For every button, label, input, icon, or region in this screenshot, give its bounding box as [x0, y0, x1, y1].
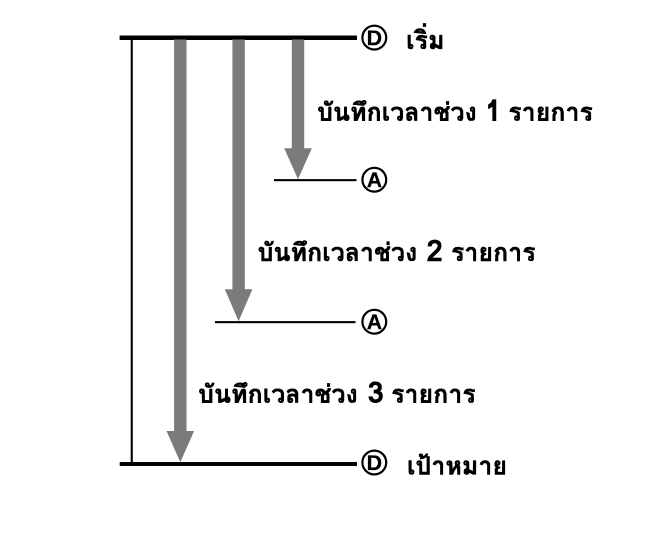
label: record time interval 2: [259, 240, 536, 262]
interval line A1: [274, 179, 357, 181]
circled A 1: [362, 168, 386, 192]
bottom horizontal line (goal): [120, 462, 357, 466]
label: record time interval 1: [318, 99, 592, 121]
top horizontal line (start): [120, 36, 357, 41]
circled A 2: [362, 310, 386, 334]
circled D bottom (goal): [362, 451, 386, 475]
circled D top (start): [362, 26, 386, 50]
gray arrow 1 (interval 1): [284, 40, 312, 180]
gray arrow 2 (interval 2): [225, 40, 253, 322]
label: start (rerm): [408, 23, 443, 49]
gray arrow 3 (interval 3): [167, 40, 195, 463]
interval line A2: [215, 321, 356, 323]
label: goal (pao mai): [409, 453, 506, 474]
label: record time interval 3: [199, 381, 475, 403]
left vertical line: [131, 40, 133, 462]
